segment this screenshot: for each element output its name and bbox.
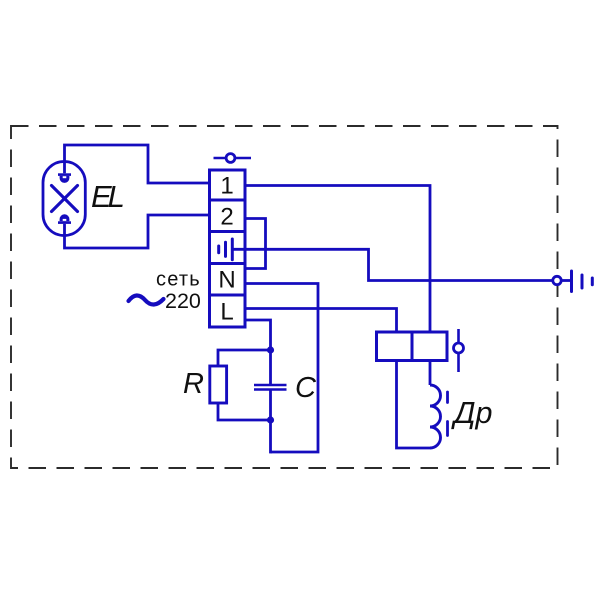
wire lamp bottom to terminal 2 [65,215,210,248]
wire connector to earth [561,279,570,282]
svg-text:сеть: сеть [156,269,201,291]
resistor R [210,366,227,403]
lamp electrode bottom [58,214,71,224]
wire starter left down [397,361,431,449]
wire terminal 1 to right vertical [245,186,430,333]
svg-text:L: L [220,299,233,326]
wire cap stem top [269,350,272,385]
wire resistor to RC bottom [218,403,271,420]
enclosure dashed border [11,126,558,468]
mains tilde [129,295,164,304]
svg-text:2: 2 [220,204,233,231]
svg-text:1: 1 [220,173,233,200]
wire lamp top to terminal 1 [65,145,210,183]
wire earth cell to enclosure connector [232,249,553,280]
svg-text:EL: EL [91,179,124,214]
terminal block [210,170,246,327]
wire starter right to choke [429,361,432,386]
lamp EL body [43,162,85,236]
svg-text:220: 220 [165,289,201,313]
choke core dashes [446,392,449,436]
earth ground symbol [572,271,593,292]
wire RC top loop to resistor [218,350,271,366]
lamp electrode top [58,173,71,183]
capacitor C plates [254,385,287,390]
choke Dr coil [430,385,441,448]
wire N to RC bottom [245,284,318,453]
wire bracket terminal 2 to N [245,219,266,269]
wire L to starter [245,309,397,333]
node RC top [267,346,274,353]
svg-text:R: R [183,368,204,400]
wire L to RC top [245,320,271,350]
svg-text:C: C [295,372,317,404]
starter connector symbol [454,329,464,372]
earth connector circle [553,276,561,284]
svg-text:N: N [218,267,235,294]
svg-text:Др: Др [451,396,492,430]
node RC bottom [267,416,274,423]
terminal earth cell symbol [219,239,233,260]
lamp EL cross [52,186,78,212]
starter box [377,332,448,361]
wire cap stem bottom [269,390,272,454]
connector symbol above terminal block [214,154,252,163]
